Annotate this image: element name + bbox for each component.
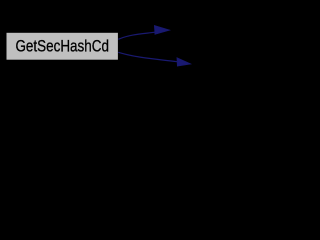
- edge to lower callee: [118, 52, 191, 66]
- edge to upper callee: [118, 25, 170, 39]
- node GetSecHashCd: [7, 33, 118, 60]
- svg-text:GetSecHashCd: GetSecHashCd: [15, 37, 109, 56]
